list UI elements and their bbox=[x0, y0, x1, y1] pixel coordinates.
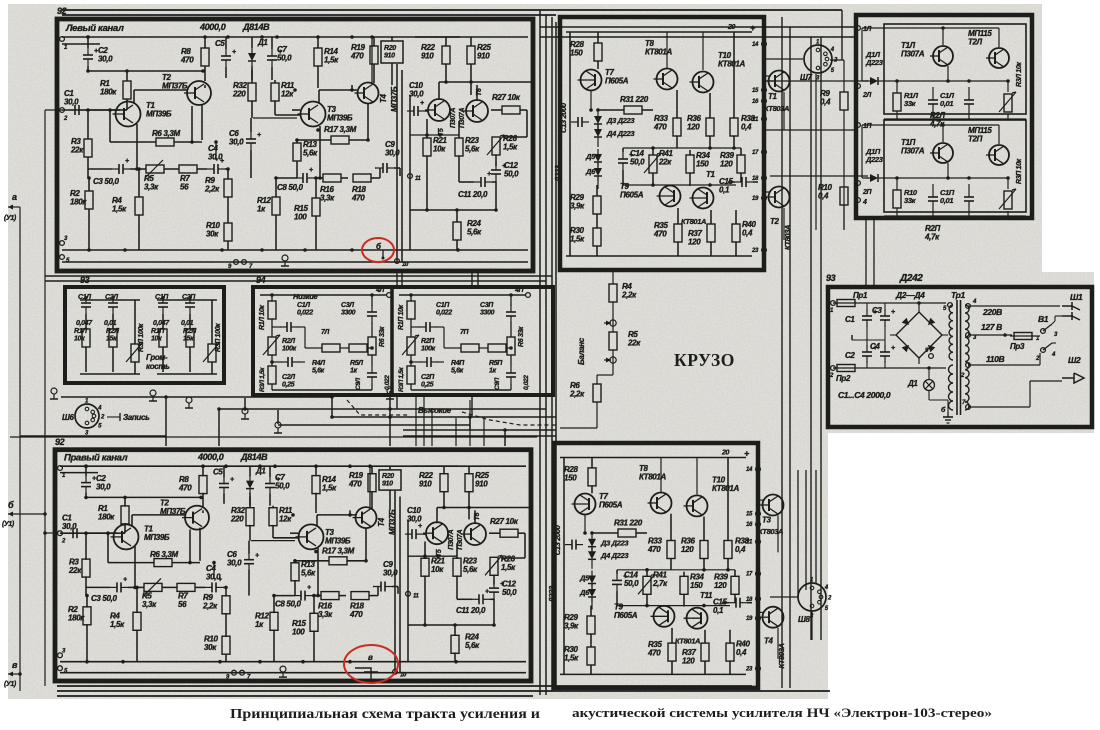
svg-text:С2П: С2П bbox=[421, 374, 435, 381]
resistor R4Л 5,6к bbox=[322, 344, 340, 352]
pin 3 (левый канал) bbox=[60, 241, 65, 246]
wire ps top bbox=[859, 302, 946, 304]
capacitor С1П 0,01 bbox=[928, 196, 938, 198]
resistor R12 (левый канал) bbox=[272, 197, 280, 215]
resistor R23 (правый канал) bbox=[453, 558, 461, 576]
svg-text:Тр1: Тр1 bbox=[951, 290, 965, 300]
wire top rail (верхний) bbox=[566, 31, 752, 33]
svg-text:0,022: 0,022 bbox=[523, 375, 530, 390]
wire top rail (правый канал) bbox=[60, 465, 458, 467]
potentiometer R2П 100к bbox=[407, 337, 415, 355]
svg-text:220: 220 bbox=[230, 515, 244, 524]
resistor R21 (левый канал) bbox=[423, 138, 431, 156]
wire R19 link (правый канал) bbox=[349, 510, 351, 515]
svg-text:910: 910 bbox=[382, 481, 393, 488]
bus vertical x811 bbox=[810, 37, 812, 640]
svg-text:1к: 1к bbox=[350, 368, 358, 375]
pin 2 (правый канал) bbox=[58, 531, 63, 536]
resistor R39 (верхний) bbox=[737, 155, 745, 173]
transistor T2 (левый канал) bbox=[187, 81, 211, 105]
svg-text:Т4: Т4 bbox=[379, 93, 388, 103]
wire Ш7 to R9 bbox=[830, 59, 844, 61]
svg-text:30к: 30к bbox=[204, 643, 217, 652]
wires bridge bbox=[918, 303, 920, 312]
wire C6 R13 row (правый канал) bbox=[251, 540, 295, 542]
pin 1Л bbox=[856, 26, 861, 31]
wires тембр Л c1 bbox=[272, 326, 281, 328]
svg-text:Запись: Запись bbox=[123, 413, 150, 422]
svg-text:470: 470 bbox=[349, 610, 363, 619]
pin 9 bottom (правый канал) bbox=[232, 670, 237, 675]
svg-text:2,2к: 2,2к bbox=[204, 185, 220, 194]
wire mid caps bbox=[852, 339, 885, 341]
svg-text:R31 220: R31 220 bbox=[614, 518, 643, 527]
wire left rail (нижний) bbox=[563, 458, 565, 675]
svg-text:910: 910 bbox=[421, 52, 434, 61]
resistor R17 (левый канал) bbox=[331, 136, 349, 144]
ground symbol 2 bbox=[150, 390, 156, 396]
ground symbol 5 bbox=[275, 422, 281, 428]
resistor R16 (правый канал) bbox=[321, 592, 339, 600]
capacitor связи П bbox=[964, 196, 974, 198]
svg-text:+: + bbox=[420, 100, 424, 107]
svg-text:С13 2000: С13 2000 bbox=[559, 102, 568, 133]
svg-text:92: 92 bbox=[55, 437, 65, 447]
wire stage1 emitter row (правый канал) bbox=[134, 546, 136, 587]
svg-text:Д6: Д6 bbox=[585, 167, 596, 176]
wire R11 base T3 (левый канал) bbox=[275, 114, 301, 116]
transistor T10 (нижний) bbox=[687, 495, 708, 516]
resistor R11 (правый канал) bbox=[269, 508, 277, 526]
resistor R10 0,4 bbox=[840, 187, 848, 205]
svg-text:10к: 10к bbox=[74, 336, 85, 343]
wire mid row (левый канал) bbox=[410, 134, 459, 136]
resistor R1П 10к (тембр) bbox=[407, 301, 415, 319]
potentiometer R2Л 100к bbox=[268, 337, 276, 355]
svg-text:1к: 1к bbox=[257, 205, 266, 214]
resistor R40 (верхний) bbox=[732, 224, 740, 242]
potentiometer R3П 100к (громкость) bbox=[208, 344, 216, 362]
wires тембр П left bbox=[410, 295, 412, 301]
resistor R29 (нижний) bbox=[587, 616, 595, 634]
svg-text:Гром-: Гром- bbox=[146, 353, 168, 362]
svg-text:22к: 22к bbox=[627, 339, 641, 348]
wire band vertical x166 bbox=[165, 397, 167, 446]
wires выходной каскад П bbox=[862, 124, 999, 126]
capacitor C6 (левый канал) bbox=[246, 138, 256, 140]
svg-text:120: 120 bbox=[681, 545, 694, 554]
wire mid row2 (верхний) bbox=[623, 184, 736, 186]
svg-text:127 В: 127 В bbox=[981, 322, 1002, 332]
svg-text:7Л: 7Л bbox=[321, 329, 330, 336]
pin 4П bbox=[526, 293, 531, 298]
svg-text:1к: 1к bbox=[255, 620, 264, 629]
svg-text:0,022: 0,022 bbox=[297, 310, 313, 317]
capacitor C14 (нижний) bbox=[612, 579, 622, 581]
svg-text:R3Л 10к: R3Л 10к bbox=[1016, 62, 1023, 87]
capacitor C4 (правый канал) bbox=[211, 582, 213, 592]
capacitor связи Л bbox=[964, 99, 974, 101]
svg-text:С5: С5 bbox=[213, 468, 223, 477]
junction dots top rail (правый канал) bbox=[84, 464, 88, 468]
svg-text:3,3к: 3,3к bbox=[320, 194, 335, 203]
svg-text:акустической системы усилителя: акустической системы усилителя НЧ «Элект… bbox=[572, 706, 992, 720]
svg-text:1,5к: 1,5к bbox=[570, 235, 585, 244]
svg-text:2,7к: 2,7к bbox=[652, 579, 668, 588]
wire T2 base link (правый канал) bbox=[189, 530, 191, 563]
resistor R20 (правый канал) bbox=[379, 470, 401, 490]
wire stage2 coupling (левый канал) bbox=[276, 177, 297, 179]
transistor T3 (правый канал) bbox=[299, 524, 324, 549]
resistor R31 (верхний) bbox=[624, 106, 642, 114]
svg-text:С13 2000: С13 2000 bbox=[553, 524, 562, 555]
svg-text:910: 910 bbox=[475, 480, 488, 489]
svg-text:R1П: R1П bbox=[151, 328, 165, 335]
svg-text:470: 470 bbox=[351, 194, 365, 203]
junctions тембр П bbox=[409, 293, 413, 297]
svg-text:1,5к: 1,5к bbox=[322, 483, 337, 492]
resistor R32 (правый канал) bbox=[246, 508, 254, 526]
wire tap 7 bbox=[968, 406, 1030, 408]
svg-text:Д3 Д223: Д3 Д223 bbox=[600, 539, 629, 548]
wire e-row stage2 (левый канал) bbox=[319, 89, 321, 91]
resistor R21 (правый канал) bbox=[421, 558, 429, 576]
svg-text:12к: 12к bbox=[281, 90, 294, 99]
wires выходной каскад Л bbox=[862, 27, 999, 29]
capacitor C2Л 0,25 bbox=[287, 357, 289, 367]
svg-text:0,047: 0,047 bbox=[153, 320, 170, 327]
wire input line (правый канал) bbox=[60, 532, 118, 534]
svg-text:30,0: 30,0 bbox=[227, 559, 242, 568]
svg-text:30к: 30к bbox=[206, 230, 219, 239]
wire T2 base link (левый канал) bbox=[191, 106, 193, 142]
wire band vertical x278 bbox=[277, 410, 279, 424]
svg-text:R27 10к: R27 10к bbox=[492, 93, 521, 102]
ground bottom (левый канал) bbox=[282, 255, 288, 261]
capacitor C14 (верхний) bbox=[618, 158, 628, 160]
svg-text:21: 21 bbox=[745, 540, 753, 546]
resistor R39 (нижний) bbox=[731, 576, 739, 594]
capacitor C8 (левый канал) bbox=[302, 173, 304, 183]
resistor R28 (верхний) bbox=[594, 43, 602, 61]
wire R14 collector T3 (левый канал) bbox=[317, 85, 319, 88]
svg-text:10к: 10к bbox=[431, 565, 444, 574]
svg-text:С9Л: С9Л bbox=[355, 377, 362, 390]
svg-text:Пр1: Пр1 bbox=[853, 291, 868, 300]
wire rail y71 (левый канал) bbox=[88, 70, 203, 72]
svg-text:23: 23 bbox=[751, 248, 759, 254]
svg-text:15к: 15к bbox=[183, 336, 194, 343]
resistor R37 (нижний) bbox=[701, 643, 709, 661]
wire Ш2 bbox=[1052, 342, 1056, 344]
resistor R4 2,2к (баланс) bbox=[609, 284, 617, 302]
bus y437 над правым каналом bbox=[10, 436, 537, 438]
resistor R17 (правый канал) bbox=[329, 557, 347, 565]
svg-text:Т3: Т3 bbox=[762, 515, 772, 524]
svg-text:0,1: 0,1 bbox=[719, 186, 730, 195]
wire vertical x20 bbox=[19, 207, 21, 691]
pin 1 (правый канал) bbox=[58, 466, 63, 471]
transistor T5 (левый канал) bbox=[428, 99, 450, 121]
svg-text:R20: R20 bbox=[384, 45, 396, 52]
svg-text:12к: 12к bbox=[279, 515, 292, 524]
resistor R14 (правый канал) bbox=[312, 476, 320, 494]
capacitor C3 (левый канал) bbox=[118, 164, 120, 174]
resistor R19 (левый канал) bbox=[370, 46, 378, 64]
svg-text:4000,0: 4000,0 bbox=[197, 452, 224, 462]
wire input top bbox=[45, 109, 62, 111]
transistor T3 (левый канал) bbox=[301, 102, 326, 127]
svg-text:R6 33к: R6 33к bbox=[379, 326, 386, 347]
bus mid y276 bbox=[45, 275, 552, 277]
svg-text:14: 14 bbox=[746, 467, 753, 473]
pin 9 bottom (левый канал) bbox=[234, 260, 239, 265]
capacitor C12 (правый канал) bbox=[489, 587, 499, 589]
wires тембр П right bbox=[510, 295, 512, 306]
wire band y436 right bbox=[403, 435, 556, 437]
wire left rail (верхний) bbox=[569, 32, 571, 256]
transistor T11 (нижний) bbox=[687, 608, 708, 629]
capacitor C2 (левый канал) bbox=[83, 54, 93, 56]
resistor R30 (верхний) bbox=[593, 228, 601, 246]
capacitor C4 (левый канал) bbox=[213, 164, 215, 174]
svg-text:МП37Б: МП37Б bbox=[162, 82, 188, 91]
potentiometer R3Л 100к (громкость) bbox=[131, 344, 139, 362]
pins right border (верхний) bbox=[762, 42, 767, 47]
resistor R28 (нижний) bbox=[588, 468, 596, 486]
svg-text:С11 20,0: С11 20,0 bbox=[458, 190, 488, 199]
capacitor C15 (нижний) bbox=[735, 598, 737, 608]
wire band vertical x505 bbox=[504, 430, 506, 446]
wire R11 base T3 (правый канал) bbox=[273, 537, 299, 539]
svg-text:30,0: 30,0 bbox=[96, 482, 111, 491]
bus vertical x782 bbox=[781, 17, 783, 688]
svg-text:R4Л: R4Л bbox=[312, 360, 325, 367]
transistor T9 (верхний) bbox=[660, 186, 681, 207]
svg-text:470: 470 bbox=[350, 52, 364, 61]
resistor R1Л 33к bbox=[893, 93, 901, 111]
wire columns to 94 right bbox=[471, 271, 473, 287]
wires громкость Л bbox=[80, 299, 140, 301]
transistor T4 (правый канал) bbox=[356, 507, 377, 528]
wire lamp bbox=[928, 368, 930, 379]
diode D3 (верхний) bbox=[594, 116, 602, 124]
resistor R5П 1к bbox=[488, 344, 506, 352]
svg-text:5,6к: 5,6к bbox=[312, 368, 325, 375]
svg-text:50,0: 50,0 bbox=[624, 579, 639, 588]
svg-text:КТ801А: КТ801А bbox=[681, 217, 706, 226]
svg-text:23: 23 bbox=[745, 667, 753, 673]
svg-text:180к: 180к bbox=[100, 88, 117, 97]
pin 2Л bbox=[856, 84, 861, 89]
wire T3 emitter (правый канал) bbox=[317, 548, 319, 596]
svg-text:Д2—Д4: Д2—Д4 bbox=[895, 290, 925, 300]
svg-text:R1Л 10к: R1Л 10к bbox=[259, 305, 266, 330]
wire 94 bottom columns bbox=[396, 395, 398, 409]
svg-text:Д4 Д223: Д4 Д223 bbox=[600, 551, 629, 560]
resistor R33 (нижний) bbox=[667, 541, 675, 559]
bus vertical x816 bottom bbox=[815, 470, 817, 583]
wire verts R20 (левый канал) bbox=[396, 64, 398, 262]
svg-text:П307А: П307А bbox=[457, 529, 464, 549]
svg-text:С1П: С1П bbox=[436, 302, 450, 309]
wire mid row (правый канал) bbox=[408, 555, 457, 557]
svg-text:120: 120 bbox=[714, 581, 727, 590]
svg-text:0,022: 0,022 bbox=[436, 310, 452, 317]
resistor R6 2,2к (баланс) bbox=[593, 384, 601, 402]
svg-text:С3: С3 bbox=[872, 306, 882, 315]
wire lower row (левый канал) bbox=[410, 209, 496, 211]
svg-text:МП39Б: МП39Б bbox=[327, 114, 353, 123]
svg-text:КТ801А: КТ801А bbox=[718, 60, 746, 69]
svg-text:R2Л: R2Л bbox=[282, 338, 295, 345]
resistor R34 (верхний) bbox=[686, 155, 694, 173]
wires тембр Л left bbox=[271, 295, 273, 301]
wires output transistors (верхний) bbox=[764, 75, 769, 77]
junction dots band bbox=[330, 395, 334, 399]
svg-text:180к: 180к bbox=[98, 513, 115, 522]
wire Ш7 left bbox=[765, 58, 803, 60]
capacitor C7 (правый канал) bbox=[265, 483, 275, 485]
svg-text:В1: В1 bbox=[1038, 314, 1049, 324]
resistor R13 (правый канал) bbox=[291, 563, 299, 581]
svg-text:С3 50,0: С3 50,0 bbox=[91, 594, 117, 603]
svg-text:30,0: 30,0 bbox=[64, 98, 79, 107]
resistor R9 (правый канал) bbox=[222, 596, 230, 614]
capacitor C5 (левый канал) bbox=[221, 55, 231, 57]
svg-text:17: 17 bbox=[752, 150, 759, 156]
svg-text:С1Л: С1Л bbox=[297, 302, 310, 309]
bus x546 bbox=[545, 15, 547, 695]
winding primary (Тр1) bbox=[949, 305, 953, 360]
svg-text:56: 56 bbox=[180, 183, 189, 192]
capacitor C1 (левый канал) bbox=[74, 105, 76, 115]
svg-text:+: + bbox=[485, 588, 489, 595]
svg-text:МП39Б: МП39Б bbox=[146, 110, 172, 119]
transistor output 1 (верхний) bbox=[769, 71, 790, 92]
wire T3-T4 (правый канал) bbox=[316, 515, 318, 527]
capacitor C6 (правый канал) bbox=[244, 559, 254, 561]
svg-text:Ш8: Ш8 bbox=[798, 615, 810, 624]
fuse Пр2 bbox=[837, 365, 855, 372]
wiper arrow 1 (баланс) bbox=[604, 322, 611, 324]
resistor R2П (громкость) bbox=[186, 329, 194, 347]
svg-text:Д4 Д223: Д4 Д223 bbox=[606, 129, 635, 138]
svg-text:3,9к: 3,9к bbox=[570, 202, 585, 211]
svg-text:R3Л 100к: R3Л 100к bbox=[138, 323, 145, 352]
svg-text:КРУЗО: КРУЗО bbox=[674, 350, 735, 370]
wire T3 emitter (левый канал) bbox=[319, 126, 321, 178]
diode D4 (нижний) bbox=[588, 551, 596, 559]
svg-text:22к: 22к bbox=[658, 158, 672, 167]
resistor R3П 1,5к bbox=[407, 366, 415, 384]
transistor output 1 (нижний) bbox=[763, 495, 784, 516]
wire top rail (нижний) bbox=[560, 457, 746, 459]
fuse Пр3 bbox=[1014, 333, 1032, 340]
svg-text:16: 16 bbox=[752, 99, 759, 105]
wire vert 11 (левый канал) bbox=[409, 95, 411, 250]
svg-text:Д814В: Д814В bbox=[240, 452, 268, 462]
svg-text:Принципиальная схема тракта ус: Принципиальная схема тракта усиления и bbox=[230, 706, 540, 721]
potentiometer R5 (левый канал) bbox=[146, 165, 164, 173]
potentiometer R41 (верхний) bbox=[649, 155, 657, 173]
wire band y417 bbox=[332, 416, 556, 418]
wire T7 emitter (нижний) bbox=[584, 515, 586, 533]
bus bottom y696 bbox=[57, 695, 533, 697]
svg-text:+: + bbox=[125, 158, 129, 165]
svg-text:С8 50,0: С8 50,0 bbox=[275, 600, 301, 609]
bus bottom y686 bbox=[57, 685, 752, 687]
svg-text:2Л: 2Л bbox=[862, 92, 872, 99]
svg-text:+: + bbox=[418, 523, 422, 530]
potentiometer R3П 10к bbox=[1004, 191, 1012, 209]
svg-text:R27 10к: R27 10к bbox=[490, 517, 519, 526]
svg-text:С2Л: С2Л bbox=[282, 374, 295, 381]
resistor R19 (правый канал) bbox=[368, 474, 376, 492]
transistor T4 (левый канал) bbox=[358, 83, 379, 104]
wire R20 columns to 94 bbox=[396, 271, 398, 287]
transistor T7 (нижний) bbox=[575, 494, 596, 515]
capacitor C7 (левый канал) bbox=[267, 55, 277, 57]
svg-text:470: 470 bbox=[647, 545, 661, 554]
ground symbol 1 (лево) bbox=[51, 388, 57, 394]
svg-text:+: + bbox=[255, 553, 259, 560]
svg-text:С5: С5 bbox=[215, 39, 225, 48]
svg-text:+: + bbox=[232, 49, 236, 56]
resistor R13 (левый канал) bbox=[293, 143, 301, 161]
potentiometer R26 (левый канал) bbox=[492, 137, 500, 155]
svg-text:30,0: 30,0 bbox=[407, 515, 422, 524]
resistor R36 (верхний) bbox=[706, 118, 714, 136]
wire top rail right (левый канал) bbox=[415, 36, 528, 38]
svg-text:470: 470 bbox=[348, 480, 362, 489]
resistor R3 (правый канал) bbox=[82, 559, 90, 577]
capacitor C2П 0,25 bbox=[426, 357, 428, 367]
capacitor C2Л (громкость) bbox=[108, 302, 118, 304]
bus top y13 bbox=[62, 14, 556, 16]
svg-text:33к: 33к bbox=[904, 196, 917, 205]
wires тембр Л mid bbox=[305, 347, 322, 349]
wire T1-T2 (правый канал) bbox=[131, 515, 133, 527]
svg-text:Ш6: Ш6 bbox=[62, 413, 74, 422]
wire tap 127 bbox=[968, 334, 1012, 336]
wire y173 bbox=[770, 175, 868, 177]
capacitor C2 (правый канал) bbox=[81, 482, 91, 484]
svg-text:Д814В: Д814В bbox=[242, 22, 270, 32]
svg-text:3300: 3300 bbox=[480, 310, 495, 317]
svg-text:П307А: П307А bbox=[450, 108, 457, 128]
svg-text:150: 150 bbox=[696, 160, 709, 169]
resistor R24 (правый канал) bbox=[451, 635, 459, 653]
svg-text:П605А: П605А bbox=[620, 191, 644, 200]
wire band vertical x245 bbox=[244, 398, 246, 409]
resistor R6 33к (тембр Л) bbox=[368, 337, 376, 355]
svg-text:С3П: С3П bbox=[480, 302, 494, 309]
svg-text:100к: 100к bbox=[421, 346, 436, 353]
svg-text:КТ801А: КТ801А bbox=[639, 473, 667, 482]
svg-text:0,4: 0,4 bbox=[735, 545, 746, 554]
diode D5 (верхний) bbox=[594, 154, 602, 162]
svg-text:R3П 10к: R3П 10к bbox=[1016, 158, 1023, 184]
capacitor С1Л 0,01 bbox=[928, 99, 938, 101]
svg-text:а: а bbox=[12, 192, 17, 202]
ground bottom (правый канал) bbox=[280, 666, 286, 672]
wire T4 collector down (правый канал) bbox=[365, 528, 367, 561]
transistor T6 (левый канал) bbox=[466, 100, 488, 122]
transistor output 2 (нижний) bbox=[763, 607, 784, 628]
svg-text:Т2П: Т2П bbox=[968, 135, 983, 144]
svg-text:18: 18 bbox=[752, 176, 759, 182]
